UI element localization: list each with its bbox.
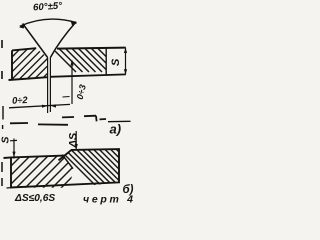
fig a: right plate end edge [105, 48, 107, 75]
fig b: left plate hatching [0, 145, 104, 200]
svg-text:0÷2: 0÷2 [12, 94, 29, 106]
fig a: left bevel edge of V-groove [23, 24, 48, 58]
dimension S (plate thickness) line with arrows [125, 48, 127, 75]
svg-text:S: S [0, 136, 12, 143]
svg-text:60°±5°: 60°±5° [33, 0, 63, 13]
torn page edge stub middle [2, 106, 4, 129]
torn page edge dashes lower [1, 162, 3, 186]
fig a: root gap right edge + extension line [49, 58, 51, 113]
svg-text:ΔS: ΔS [68, 132, 80, 148]
fig a: left plate outline [9, 48, 48, 80]
torn page edge dashes upper [1, 40, 3, 79]
dimension 0÷2 line right part with arrow [50, 104, 56, 107]
fig b: right plate hatching [56, 146, 155, 188]
fig b: dimension S tick [10, 139, 17, 141]
svg-text:ΔS≤0,6S: ΔS≤0,6S [14, 193, 55, 204]
fig a: right bevel edge of V-groove [50, 22, 76, 58]
fig b: bottom extension tick at left [7, 187, 12, 189]
paper background [0, 0, 136, 205]
fig b: joint line between plates [62, 155, 73, 169]
dimension 0÷3 (root face) line with up arrow [71, 61, 73, 105]
svg-text:S: S [110, 58, 122, 66]
angle dimension arc [20, 19, 77, 26]
caption a) overline [108, 120, 131, 122]
fig b: dimension dS line with down arrow [75, 131, 77, 149]
separator dash row between figures [10, 116, 106, 125]
fig a: left plate hatching [0, 40, 81, 95]
arc arrowhead right [71, 21, 78, 26]
fig b: dimension S extension line with down arrow [13, 139, 15, 159]
fig a: right plate hatching [46, 42, 122, 72]
svg-text:а): а) [110, 122, 122, 137]
stray scan tick near 0÷3 line [63, 96, 70, 99]
dimension 0÷2 line left part with arrow [9, 104, 70, 107]
fig a: root gap left edge + extension line [47, 58, 49, 114]
fig a: right plate top edge with extension to S dimension [57, 48, 126, 49]
fig a: right plate bottom edge with extension [50, 74, 125, 76]
fig b: welded section outline (left top, bevel, right top, end, bottom, left end) [4, 149, 120, 187]
arc arrowhead left [19, 24, 26, 28]
